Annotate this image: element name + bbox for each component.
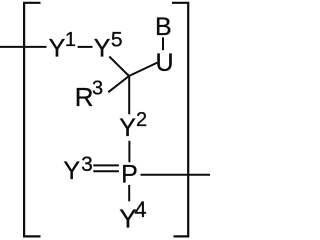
svg-text:Y: Y <box>63 157 80 185</box>
wire bond Y1-Y5 <box>78 46 93 48</box>
svg-text:1: 1 <box>65 29 76 51</box>
svg-text:U: U <box>156 49 174 77</box>
svg-text:B: B <box>155 13 172 41</box>
wire left bond into Y1 <box>0 46 47 48</box>
svg-text:Y: Y <box>49 35 66 63</box>
svg-text:5: 5 <box>111 29 123 52</box>
svg-text:Y: Y <box>94 35 111 63</box>
wire bond vertex to U <box>129 63 157 76</box>
svg-text:R: R <box>75 82 94 112</box>
svg-text:3: 3 <box>92 78 103 100</box>
wire bond P down to Y4 <box>128 185 130 201</box>
svg-text:2: 2 <box>136 109 147 131</box>
wire bond R3 to vertex <box>108 76 129 92</box>
svg-text:Y: Y <box>119 114 136 142</box>
wire bond P to right edge <box>141 174 211 176</box>
left bracket <box>24 3 40 237</box>
svg-text:P: P <box>121 160 138 188</box>
svg-text:3: 3 <box>81 153 93 176</box>
wire bond B-U <box>162 37 164 50</box>
wire bond vertex down to Y2 <box>128 76 130 115</box>
wire bond Y5 to central vertex <box>109 57 129 77</box>
svg-text:4: 4 <box>134 197 146 222</box>
wire bond Y2 to P <box>128 141 130 163</box>
wire double bond Y3=P <box>93 165 119 171</box>
right bracket <box>172 3 188 237</box>
